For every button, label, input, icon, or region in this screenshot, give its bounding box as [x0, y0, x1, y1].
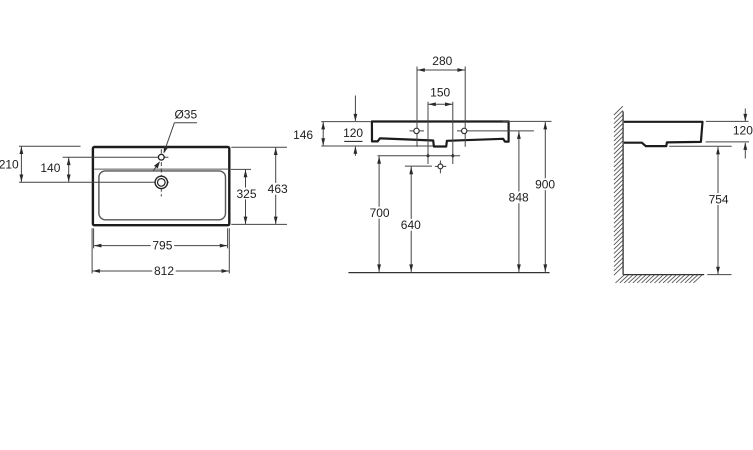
- drain hole outer circle: [155, 176, 167, 188]
- dimension 700 line with arrows: [378, 156, 380, 272]
- floor line (front view): [348, 272, 549, 274]
- basin top view: outer rim rectangle: [93, 147, 229, 225]
- dimension 463 extension lines: [231, 146, 287, 148]
- svg-text:754: 754: [709, 192, 729, 206]
- svg-text:812: 812: [154, 264, 174, 278]
- dimension 900 line with arrows: [544, 122, 546, 272]
- dimension 463 label: [267, 183, 289, 195]
- dimension 795 label: [151, 240, 175, 252]
- svg-text:280: 280: [432, 54, 452, 68]
- reference line for dim 640: [405, 165, 432, 167]
- dimension 795 extension lines: [93, 228, 95, 248]
- right faucet hole tick / 848 reference line: [457, 130, 534, 132]
- svg-text:700: 700: [370, 206, 390, 220]
- reference line for dim 700: [378, 155, 461, 157]
- dimension 150 line with arrows: [428, 103, 453, 105]
- extension line at basin top for dim 900: [503, 120, 552, 122]
- left faucet hole tick: [410, 130, 425, 132]
- svg-text:120: 120: [733, 124, 753, 138]
- dimension 640 label: [399, 219, 423, 231]
- dimension 120 arrows (front view): [354, 96, 356, 121]
- svg-text:146: 146: [293, 128, 313, 142]
- dimension 325 extension line: [231, 168, 251, 170]
- extension line for dims 146/120 at basin top: [321, 121, 371, 123]
- faucet hole circle: [158, 154, 164, 160]
- svg-text:140: 140: [40, 161, 60, 175]
- drain trap tick lines (front view): [435, 165, 446, 167]
- svg-text:150: 150: [430, 86, 450, 100]
- basin top view: back ledge line: [94, 168, 228, 170]
- extension line through faucet hole for dim 140: [63, 156, 169, 158]
- extension line for dim 754 top: [669, 145, 732, 147]
- svg-text:463: 463: [268, 182, 288, 196]
- dimension 463 line with arrows: [275, 147, 277, 224]
- svg-text:900: 900: [535, 178, 555, 192]
- extension lines for dim 120 (side view): [706, 120, 749, 122]
- svg-text:210: 210: [0, 158, 19, 172]
- dimension 210 line with arrows: [20, 146, 22, 182]
- dimension 140 line with arrows: [68, 157, 70, 182]
- dimension 640 line with arrows: [410, 167, 412, 273]
- dimension 812 label: [152, 265, 176, 277]
- extension line for dim 754 bottom: [707, 274, 731, 276]
- extension line left faucet vertical for dim 280: [416, 67, 418, 147]
- wall line: [622, 111, 624, 274]
- dimension 812 line with arrows: [92, 270, 229, 272]
- svg-text:848: 848: [509, 191, 529, 205]
- dimension 848 label: [507, 191, 531, 203]
- dimension 754 line with arrows: [717, 147, 719, 274]
- front view basin profile: [372, 122, 509, 147]
- leader line from diameter label to faucet hole: [174, 122, 197, 124]
- dimension 700 label: [368, 207, 392, 219]
- svg-text:Ø35: Ø35: [174, 108, 197, 122]
- dimension 146 line with arrows: [322, 122, 324, 146]
- dimension 325 line with arrows: [245, 169, 247, 224]
- dimension 280 line with arrows: [417, 69, 465, 71]
- right faucet hole mark: [462, 128, 467, 133]
- dimension 900 label: [533, 178, 557, 190]
- dimension 754 label: [707, 193, 731, 205]
- dimension 120 arrows (side view): [744, 109, 746, 121]
- wall hatching: [614, 106, 623, 275]
- dimension 848 line with arrows: [518, 131, 520, 272]
- side view basin profile: [624, 122, 703, 146]
- svg-text:325: 325: [236, 187, 256, 201]
- dimension 325 label: [236, 188, 258, 200]
- small leader arrow below faucet hole: [153, 164, 158, 171]
- drain trap circle mark (front view): [438, 164, 443, 169]
- extension lines for dim 150 with end dots: [427, 102, 429, 164]
- floor hatching: [616, 275, 703, 283]
- svg-text:640: 640: [401, 218, 421, 232]
- svg-text:795: 795: [152, 239, 172, 253]
- floor line (side view): [623, 274, 704, 276]
- svg-text:120: 120: [343, 126, 363, 140]
- extension line through drain for dims 210/140: [19, 181, 169, 183]
- left faucet hole mark: [414, 128, 419, 133]
- extension line for dim 146 bottom: [321, 145, 433, 147]
- basin top view: inner bowl rounded rectangle: [99, 171, 226, 220]
- extension line right faucet vertical for dim 280: [464, 67, 466, 147]
- drain hole inner circle: [158, 179, 166, 187]
- dimension 795 line with arrows: [94, 245, 228, 247]
- dimension 812 extension lines: [91, 228, 93, 273]
- extension line at top edge for dim 210: [19, 145, 81, 147]
- dashed centerline through faucet and drain: [160, 149, 162, 196]
